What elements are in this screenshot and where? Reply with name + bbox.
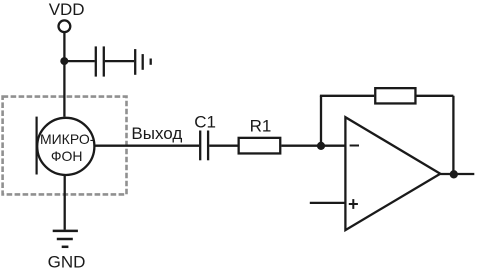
ground (sideways, at decoupling cap) [135,49,151,75]
resistor (feedback, unlabeled) [375,88,415,103]
svg-text:VDD: VDD [49,0,85,19]
capacitor (decoupling, unlabeled) [96,46,104,76]
wire capacitor to side ground [105,60,134,62]
svg-text:Выход: Выход [131,124,182,143]
svg-text:ФОН: ФОН [51,148,83,164]
wire feedback down to output node [452,96,454,174]
junction dot at output [450,170,458,178]
ground (below microphone) [53,231,78,247]
wire microphone output to C1 [96,145,200,147]
wire feedback top right segment [417,95,454,97]
wire junction to decoupling capacitor [64,60,95,62]
op-amp minus sign [350,145,359,147]
op-amp triangle [345,117,440,230]
terminal VDD (open circle) [59,20,71,32]
wire VDD terminal down to microphone [63,33,65,117]
svg-text:C1: C1 [194,113,216,132]
wire op-amp output [440,173,474,175]
microphone circle [37,118,94,175]
op-amp plus sign [349,199,358,209]
wire microphone to ground [64,176,66,230]
svg-text:R1: R1 [250,116,272,135]
svg-text:МИКРО-: МИКРО- [40,131,95,147]
wire feedback top left segment [320,95,374,97]
capacitor C1 [200,131,208,161]
junction dot at inverting input [317,142,325,150]
wire op-amp noninverting input [310,202,346,204]
junction dot on VDD rail [60,57,68,65]
dashed enclosure around microphone [3,97,127,195]
wire junction up to feedback branch [320,96,322,146]
svg-text:GND: GND [48,253,86,272]
microphone front plate bar [35,117,37,175]
wire R1 to op-amp inverting input [281,145,346,147]
wire C1 to R1 [209,145,237,147]
resistor R1 [239,138,281,154]
